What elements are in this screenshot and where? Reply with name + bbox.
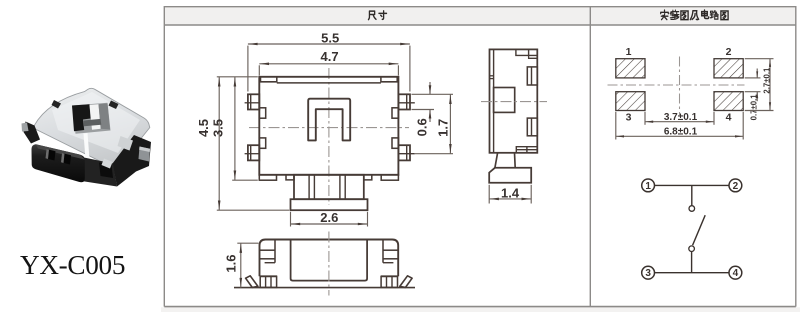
svg-text:2: 2 — [726, 46, 732, 58]
svg-text:4.5: 4.5 — [196, 119, 211, 137]
svg-text:3.7±0.1: 3.7±0.1 — [664, 112, 698, 123]
svg-text:6.8±0.1: 6.8±0.1 — [664, 127, 698, 138]
svg-text:YX-C005: YX-C005 — [20, 250, 125, 280]
svg-text:1.6: 1.6 — [223, 255, 238, 273]
svg-text:1.4: 1.4 — [501, 185, 520, 200]
svg-text:2: 2 — [733, 181, 739, 192]
svg-text:4.7: 4.7 — [321, 49, 339, 64]
svg-text:3: 3 — [645, 268, 651, 279]
svg-text:1.7: 1.7 — [436, 119, 451, 137]
svg-text:3: 3 — [626, 111, 632, 123]
svg-text:1: 1 — [626, 46, 632, 58]
svg-text:3.5: 3.5 — [210, 119, 225, 137]
svg-text:0.7±0.1: 0.7±0.1 — [750, 94, 759, 121]
svg-text:2.6: 2.6 — [320, 210, 338, 225]
svg-text:4: 4 — [726, 111, 732, 123]
svg-text:2.7±0.1: 2.7±0.1 — [762, 67, 771, 94]
svg-text:4: 4 — [733, 268, 739, 279]
svg-text:1: 1 — [645, 181, 651, 192]
svg-text:0.6: 0.6 — [414, 118, 429, 136]
svg-text:5.5: 5.5 — [321, 30, 339, 45]
